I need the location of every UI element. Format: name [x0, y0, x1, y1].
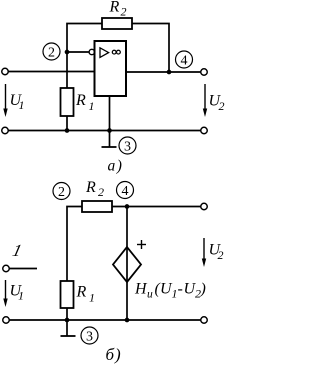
svg-text:R: R — [85, 179, 96, 196]
svg-text:H: H — [134, 281, 148, 298]
U1' voltage arrow — [3, 280, 7, 307]
label R1 — [75, 92, 95, 113]
svg-text:2: 2 — [219, 99, 225, 113]
node 2 circled label — [43, 43, 60, 61]
label R2 — [109, 0, 127, 19]
svg-text:R: R — [76, 284, 87, 301]
wire output — [126, 71, 201, 73]
node output junction dot — [167, 70, 172, 75]
terminal bottom-right b — [201, 317, 208, 324]
terminal bottom-left — [2, 127, 9, 134]
U1 voltage arrow — [3, 84, 7, 117]
svg-text:2: 2 — [218, 248, 224, 262]
junction dot R1' bottom — [65, 318, 70, 323]
wire top rail — [67, 207, 201, 282]
wire bottom rail — [8, 130, 201, 132]
plus sign of source — [137, 240, 146, 249]
junction dot ground pin — [107, 128, 112, 133]
wire non-inverting input — [8, 71, 94, 73]
svg-text:1: 1 — [18, 289, 24, 303]
label U2' — [209, 242, 224, 263]
svg-text:4: 4 — [181, 54, 188, 69]
svg-text:): ) — [200, 281, 206, 298]
resistor R1' — [61, 281, 74, 308]
U2' voltage arrow — [202, 238, 206, 267]
wire top feedback rail — [67, 24, 169, 89]
resistor R1 — [61, 88, 74, 116]
node 4 circled label — [176, 51, 193, 69]
wire bottom rail b — [9, 319, 201, 321]
resistor R2 — [102, 18, 132, 29]
svg-text:R: R — [109, 0, 120, 16]
label U2 — [209, 93, 225, 114]
label U1' — [10, 283, 25, 303]
dependent source Hu(U1-U2) diamond — [113, 247, 141, 282]
svg-text:-: - — [178, 281, 183, 298]
svg-text:4: 4 — [122, 184, 129, 199]
terminal bottom-right — [201, 127, 208, 134]
label node 1 — [11, 241, 24, 260]
svg-text:2: 2 — [121, 5, 127, 19]
junction dot R1 bottom — [65, 128, 70, 133]
label R1' — [76, 284, 96, 305]
terminal bottom-left b — [3, 317, 10, 324]
ground symbol — [102, 131, 117, 148]
ground symbol b — [61, 320, 76, 336]
terminal node 1 with stub — [3, 265, 37, 272]
label U1 — [10, 92, 25, 112]
svg-text:1: 1 — [89, 99, 95, 113]
svg-text:б): б) — [106, 345, 122, 364]
op-amp U1 (rectangular GOST symbol, infinite gain) — [89, 41, 126, 96]
svg-text:2: 2 — [98, 185, 104, 199]
terminal top-right b — [201, 203, 208, 210]
node 2' circled label — [53, 183, 70, 201]
svg-text:R: R — [75, 92, 86, 109]
junction dot node 4 — [125, 204, 130, 209]
svg-text:3: 3 — [124, 140, 131, 155]
wire R1' to bottom rail — [66, 308, 68, 320]
node 2 junction dot — [65, 50, 70, 55]
node 3' circled label — [81, 327, 98, 345]
node 4' circled label — [117, 182, 134, 200]
svg-text:1: 1 — [19, 98, 25, 112]
svg-text:2: 2 — [58, 185, 65, 200]
svg-text:а): а) — [108, 158, 124, 175]
wire dependent source branch — [126, 207, 128, 321]
svg-text:2: 2 — [48, 46, 55, 61]
wire R1 to bottom rail — [66, 116, 68, 131]
svg-text:1: 1 — [89, 291, 95, 305]
svg-text:u: u — [147, 289, 153, 301]
wire op-amp ground pin — [109, 96, 111, 131]
label Hu(U1-U2) — [134, 281, 206, 301]
node 3 circled label — [119, 137, 136, 155]
wire inverting input from node 2 to op-amp — [67, 51, 90, 53]
svg-text:3: 3 — [86, 330, 93, 345]
terminal output top-right — [201, 69, 208, 76]
wire inside diamond — [126, 247, 128, 282]
U2 voltage arrow — [203, 84, 207, 117]
resistor R2' — [82, 201, 112, 212]
label R2' — [85, 179, 104, 199]
junction dot source bottom — [125, 318, 130, 323]
terminal input top-left — [2, 68, 9, 75]
